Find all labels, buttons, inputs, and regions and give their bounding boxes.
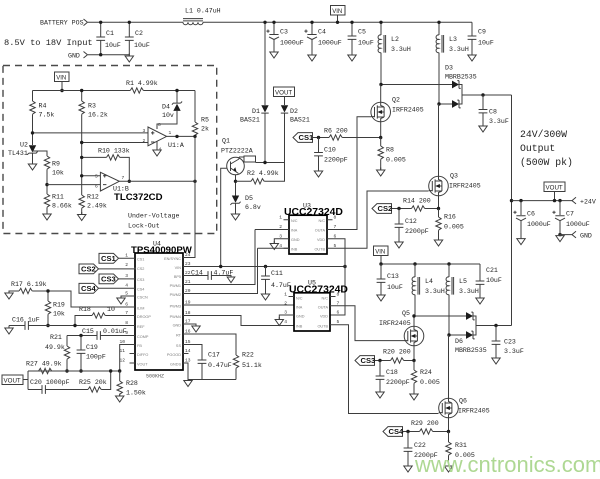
wire FB rail <box>28 370 120 372</box>
node CS1 tag phase <box>293 133 314 143</box>
ground U2 <box>28 162 36 171</box>
capacitor C19 <box>65 336 106 373</box>
svg-text:0.01uF: 0.01uF <box>103 328 127 335</box>
svg-text:INB: INB <box>296 325 303 329</box>
transistor Q3 IRFR2405 <box>429 104 481 208</box>
svg-text:D1: D1 <box>252 108 260 115</box>
capacitor C16 <box>9 317 135 330</box>
wire U5 OUTB to Q6 gate <box>330 325 439 414</box>
svg-text:FB: FB <box>137 344 142 348</box>
wire PWM3 pin19 <box>183 304 294 306</box>
svg-text:OUTA: OUTA <box>315 229 326 233</box>
wire U5 GND pin3 <box>279 315 294 320</box>
ground C10 <box>314 169 322 178</box>
node CS1 tag <box>99 253 135 263</box>
svg-text:10k: 10k <box>52 170 64 177</box>
svg-text:PWM2: PWM2 <box>170 293 181 297</box>
capacitor C17 <box>198 352 232 380</box>
resistor R3 <box>79 89 108 195</box>
svg-text:Q6: Q6 <box>459 398 467 405</box>
wire pin15 SS <box>183 345 202 361</box>
svg-text:R4: R4 <box>39 103 47 110</box>
wire U3 INA from PWM1 <box>255 229 289 231</box>
svg-text:3.3uH: 3.3uH <box>459 288 479 295</box>
svg-text:C12: C12 <box>405 218 417 225</box>
inductor L2 <box>378 21 411 85</box>
svg-text:0.005: 0.005 <box>444 224 464 231</box>
svg-text:VIN: VIN <box>375 250 385 256</box>
UVLO dashed box <box>3 66 217 234</box>
capacitor C18 <box>376 361 410 393</box>
svg-text:R6 200: R6 200 <box>324 128 348 135</box>
svg-text:D2: D2 <box>290 108 298 115</box>
svg-text:CS3: CS3 <box>361 356 376 365</box>
svg-text:C3: C3 <box>280 29 288 36</box>
wire phase3 node <box>414 315 466 317</box>
svg-text:OUTA: OUTA <box>318 306 329 310</box>
svg-text:(500W pk): (500W pk) <box>520 157 573 168</box>
svg-text:C16 1uF: C16 1uF <box>12 317 40 324</box>
svg-text:3: 3 <box>125 273 128 279</box>
wire U3 INB from PWM2 <box>258 247 290 249</box>
diode D3 MBRB2535 <box>437 65 511 108</box>
wire GNDS pin13 <box>183 363 188 380</box>
svg-text:CS1: CS1 <box>101 254 117 263</box>
svg-text:R18: R18 <box>79 306 91 313</box>
svg-text:C11: C11 <box>271 270 283 277</box>
wire main top rail <box>203 21 472 23</box>
svg-text:500KHZ: 500KHZ <box>146 374 164 380</box>
wire PWM1 pin21 <box>183 230 255 285</box>
svg-text:C10: C10 <box>324 147 336 154</box>
svg-text:SS: SS <box>176 344 182 348</box>
svg-text:1: 1 <box>279 215 282 221</box>
svg-text:CS2: CS2 <box>81 265 96 274</box>
node CS3 tag phase <box>355 356 375 366</box>
wire TL431 to R9 <box>33 151 48 156</box>
svg-text:6.8v: 6.8v <box>245 204 261 211</box>
resistor R14 <box>392 198 441 212</box>
svg-text:C1: C1 <box>106 30 114 37</box>
ground C3 <box>270 50 278 59</box>
svg-text:R11: R11 <box>52 194 64 201</box>
svg-text:INA: INA <box>296 306 303 310</box>
svg-text:MBRB2535: MBRB2535 <box>445 74 477 81</box>
resistor R4 <box>30 91 55 146</box>
ground R28 <box>116 394 124 403</box>
svg-text:2.49k: 2.49k <box>87 203 107 210</box>
svg-text:GND: GND <box>173 324 182 328</box>
svg-text:D3: D3 <box>445 65 453 72</box>
svg-text:Q5: Q5 <box>402 310 410 317</box>
svg-text:1000uF: 1000uF <box>566 221 590 228</box>
diode D6 MBRB2535 <box>447 312 511 354</box>
transistor Q6 IRFR2405 <box>439 335 490 432</box>
svg-text:CS4: CS4 <box>81 284 97 293</box>
ground U3 <box>270 241 278 250</box>
ground C16 <box>5 326 13 335</box>
resistor R17 <box>9 281 135 307</box>
svg-text:VOUT: VOUT <box>546 185 563 192</box>
svg-text:0.005: 0.005 <box>386 157 406 164</box>
ground C14 <box>227 277 235 283</box>
svg-text:5: 5 <box>95 174 98 180</box>
svg-text:C17: C17 <box>208 352 220 359</box>
capacitor C8 <box>479 95 509 126</box>
capacitor C10 <box>314 138 348 172</box>
svg-text:GND: GND <box>68 53 80 60</box>
capacitor C6 electrolytic <box>513 201 550 239</box>
svg-text:MBRB2535: MBRB2535 <box>455 347 487 354</box>
node VIN box mid <box>374 246 389 264</box>
wire U3 OUTA to Q2 gate <box>327 117 371 230</box>
wire Q1 emitter <box>235 181 237 195</box>
resistor R19 <box>45 289 65 327</box>
svg-text:10uF: 10uF <box>105 42 121 49</box>
capacitor C4 electrolytic <box>304 21 341 54</box>
wire output rail vertical <box>511 95 513 326</box>
svg-text:CS4: CS4 <box>137 288 144 292</box>
svg-text:L1 0.47uH: L1 0.47uH <box>185 8 221 15</box>
svg-text:3.3uF: 3.3uF <box>489 118 509 125</box>
svg-text:OUTB: OUTB <box>317 325 328 329</box>
svg-text:R5: R5 <box>201 117 209 124</box>
capacitor C1 <box>96 21 121 57</box>
svg-text:COMP: COMP <box>137 335 149 339</box>
capacitor C15 <box>67 328 135 340</box>
svg-text:10k: 10k <box>53 311 65 318</box>
resistor R9 <box>44 156 64 194</box>
capacitor C13 <box>377 264 403 295</box>
resistor R21 <box>45 334 70 371</box>
resistor R29 <box>403 420 451 434</box>
svg-text:C14: C14 <box>191 270 203 277</box>
svg-text:R20 200: R20 200 <box>383 349 411 356</box>
svg-text:IRFR2405: IRFR2405 <box>449 183 481 190</box>
Q1 collector box <box>239 156 256 163</box>
capacitor C7 electrolytic <box>552 201 589 237</box>
svg-text:C6: C6 <box>527 211 535 218</box>
diode U2 TL431 <box>8 142 38 165</box>
svg-text:8: 8 <box>334 215 337 221</box>
transistor Q5 IRFR2405 <box>379 310 424 360</box>
node VOUT box output <box>544 182 565 201</box>
node CS4 tag <box>79 283 135 293</box>
node CS3 tag <box>99 274 135 284</box>
ground C7 <box>556 233 564 242</box>
ground R11 <box>43 212 51 221</box>
svg-text:11: 11 <box>119 348 125 354</box>
svg-text:2k: 2k <box>201 126 209 133</box>
svg-text:1: 1 <box>125 253 128 259</box>
inductor L3 <box>436 21 469 104</box>
wire EN column down to pin24 <box>189 136 195 257</box>
svg-text:C5: C5 <box>358 29 366 36</box>
ground C6 <box>517 236 525 245</box>
svg-text:GND: GND <box>291 238 300 242</box>
svg-text:CS4: CS4 <box>389 427 405 436</box>
svg-text:R10 133k: R10 133k <box>98 148 130 155</box>
svg-text:C9: C9 <box>478 29 486 36</box>
svg-text:C20 1000pF: C20 1000pF <box>30 379 70 386</box>
svg-text:DROOP: DROOP <box>137 315 151 319</box>
capacitor C5 <box>348 21 374 54</box>
svg-text:Q1: Q1 <box>222 138 230 145</box>
resistor R28 <box>117 371 146 397</box>
ground C11 <box>261 292 269 301</box>
svg-text:2200pF: 2200pF <box>386 379 410 386</box>
svg-text:8.5V to 18V Input: 8.5V to 18V Input <box>4 38 93 48</box>
svg-text:10uF: 10uF <box>387 284 403 291</box>
inductor L5 <box>446 264 479 335</box>
svg-text:CS2: CS2 <box>137 267 144 271</box>
wire C17 R22 bottom rail <box>188 379 236 381</box>
svg-text:R12: R12 <box>87 194 99 201</box>
svg-text:VOUT: VOUT <box>4 378 21 385</box>
ground C4 <box>308 53 316 62</box>
svg-text:IRFR2405: IRFR2405 <box>458 408 490 415</box>
svg-text:INB: INB <box>291 248 298 252</box>
svg-text:IRFR2405: IRFR2405 <box>392 107 424 114</box>
svg-text:R27 49.9k: R27 49.9k <box>26 361 62 368</box>
svg-text:10: 10 <box>107 306 115 313</box>
svg-text:8: 8 <box>337 292 340 298</box>
ground R31 <box>444 464 452 473</box>
resistor R16 <box>436 209 464 241</box>
svg-text:BATTERY POS: BATTERY POS <box>40 20 84 27</box>
svg-text:CS3: CS3 <box>137 278 144 282</box>
svg-text:VOUT: VOUT <box>275 90 292 97</box>
svg-text:REF: REF <box>137 325 145 329</box>
wire EN pin24 stub <box>183 257 189 259</box>
svg-text:R21: R21 <box>50 334 62 341</box>
resistor R18 <box>73 306 135 327</box>
ground C12 <box>395 240 403 249</box>
resistor R2 <box>236 163 285 185</box>
svg-text:C4: C4 <box>318 29 326 36</box>
svg-text:C23: C23 <box>504 339 516 346</box>
svg-text:R19: R19 <box>53 302 65 309</box>
svg-text:7: 7 <box>122 175 125 181</box>
svg-text:Lock-Out: Lock-Out <box>128 223 160 230</box>
ground pin17 <box>192 324 200 333</box>
svg-text:INA: INA <box>291 229 298 233</box>
svg-text:2: 2 <box>143 138 146 144</box>
svg-text:10uF: 10uF <box>478 40 494 47</box>
resistor R1 <box>126 80 158 93</box>
svg-text:10v: 10v <box>162 112 174 119</box>
svg-text:0.47uF: 0.47uF <box>208 362 232 369</box>
svg-text:PWM3: PWM3 <box>170 305 181 309</box>
svg-text:N/C: N/C <box>296 297 303 301</box>
wire uvlo top rail <box>33 90 196 92</box>
node VIN box uvlo <box>55 72 70 92</box>
wire PWM4 pin18 <box>183 316 294 326</box>
svg-text:R2 4.99k: R2 4.99k <box>247 170 279 177</box>
ground C8 <box>479 124 487 133</box>
svg-text:1.50k: 1.50k <box>126 390 146 397</box>
wire pin14 stub <box>183 353 189 355</box>
ground R8 <box>377 168 385 177</box>
wire gnd input <box>88 54 129 56</box>
svg-text:VIN: VIN <box>56 76 66 82</box>
svg-text:L5: L5 <box>459 278 467 285</box>
svg-text:C8: C8 <box>489 109 497 116</box>
node 24V output text <box>520 129 573 168</box>
resistor R24 <box>411 361 440 395</box>
svg-text:PWM4: PWM4 <box>170 315 181 319</box>
svg-text:U2: U2 <box>20 142 28 149</box>
wire VIN phase34 bus <box>381 263 480 265</box>
ground C21 <box>476 296 484 305</box>
svg-text:2200pF: 2200pF <box>405 228 429 235</box>
wire +24V rail <box>512 200 573 202</box>
svg-text:RT: RT <box>176 334 182 338</box>
capacitor C22 <box>404 432 438 467</box>
op-amp U1:B <box>95 172 129 192</box>
resistor R27 <box>26 361 67 374</box>
svg-text:CS1: CS1 <box>299 133 315 142</box>
svg-text:U1:A: U1:A <box>168 142 184 149</box>
svg-text:GND: GND <box>580 233 592 240</box>
svg-text:CS2: CS2 <box>378 204 393 213</box>
ground U5 <box>275 317 283 326</box>
transistor Q1 PTZ2222A <box>221 138 253 182</box>
wire D1 D2 cathode node <box>256 162 285 164</box>
wire phase1 node <box>381 84 452 86</box>
svg-text:4.7uF: 4.7uF <box>214 270 234 277</box>
wire U5 OUTA to Q5 gate <box>330 306 405 341</box>
svg-text:VDD: VDD <box>317 238 325 242</box>
svg-text:10uF: 10uF <box>486 277 502 284</box>
svg-text:2: 2 <box>125 262 128 268</box>
svg-text:CS1: CS1 <box>137 258 144 262</box>
wire Q1 base to VIN pin line <box>221 168 227 266</box>
wire U3 OUTB to Q3 gate <box>327 191 429 248</box>
svg-text:+24V: +24V <box>580 199 596 206</box>
svg-text:C13: C13 <box>387 273 399 280</box>
svg-text:16.2k: 16.2k <box>88 112 108 119</box>
svg-text:C15: C15 <box>82 328 94 335</box>
svg-text:N/C: N/C <box>321 297 328 301</box>
node VIN box top <box>331 6 346 24</box>
capacitor C9 <box>468 22 494 54</box>
capacitor C21 <box>476 264 502 298</box>
resistor R22 <box>233 352 262 380</box>
svg-text:3.3uH: 3.3uH <box>391 46 411 53</box>
svg-text:N/C: N/C <box>291 219 298 223</box>
capacitor C14 <box>183 270 233 280</box>
svg-text:OUTB: OUTB <box>314 248 325 252</box>
svg-text:4: 4 <box>284 319 287 325</box>
capacitor C11 <box>261 267 291 295</box>
svg-text:1000uF: 1000uF <box>527 221 551 228</box>
wire battery pos rail <box>88 21 183 23</box>
wire CSCN pin5 <box>121 296 135 298</box>
wire U3 GND pin3 <box>274 239 289 244</box>
svg-text:N/C: N/C <box>318 219 325 223</box>
svg-text:IRFR2405: IRFR2405 <box>379 320 411 327</box>
svg-text:0.005: 0.005 <box>420 379 440 386</box>
svg-text:VOUT: VOUT <box>137 363 148 367</box>
svg-text:VIN: VIN <box>332 9 342 15</box>
ground input <box>125 54 133 63</box>
svg-text:D4: D4 <box>162 104 170 111</box>
op-amp U1:A <box>143 122 184 153</box>
svg-text:4.7uF: 4.7uF <box>271 282 291 289</box>
svg-text:TLC372CD: TLC372CD <box>114 192 163 203</box>
svg-text:1000uF: 1000uF <box>280 40 304 47</box>
ground C9 <box>468 53 476 62</box>
svg-text:GNDS: GNDS <box>170 363 181 367</box>
node CS2 tag phase <box>372 204 392 214</box>
svg-text:100pF: 100pF <box>86 354 106 361</box>
capacitor C12 <box>395 209 429 243</box>
wire pin16 RT <box>183 334 236 355</box>
svg-text:3.3uH: 3.3uH <box>425 288 445 295</box>
ground C5 <box>348 53 356 62</box>
svg-text:R29 200: R29 200 <box>411 420 439 427</box>
resistor R31 <box>446 432 475 467</box>
resistor R8 <box>378 138 406 171</box>
svg-text:R28: R28 <box>126 380 138 387</box>
svg-text:VIN: VIN <box>175 266 182 270</box>
svg-text:CSCN: CSCN <box>137 296 148 300</box>
resistor R6 <box>313 128 383 141</box>
svg-text:L2: L2 <box>391 36 399 43</box>
svg-text:8.66k: 8.66k <box>52 203 72 210</box>
svg-text:Under-Voltage: Under-Voltage <box>128 213 179 220</box>
resistor R12 <box>79 194 107 215</box>
ground U1A pin4 <box>153 141 161 156</box>
capacitor C2 <box>125 21 150 56</box>
ground R12 <box>78 212 86 221</box>
ground C18 <box>376 390 384 399</box>
wire U1B pin5 to R3 node <box>82 175 101 177</box>
wire FB pin10 <box>120 345 135 372</box>
svg-text:D5: D5 <box>245 195 253 202</box>
capacitor C3 electrolytic <box>266 21 303 51</box>
svg-text:R22: R22 <box>242 352 254 359</box>
svg-text:BAS21: BAS21 <box>240 117 260 124</box>
ground GNDS <box>184 378 192 387</box>
wire VIN pin23 line <box>183 266 345 268</box>
capacitor C23 <box>492 326 524 359</box>
ground R24 <box>410 392 418 401</box>
ground R17 <box>5 291 13 300</box>
svg-text:EN/SYNC: EN/SYNC <box>164 257 181 261</box>
wire U1A pin3 to TL431 node <box>33 132 149 134</box>
svg-text:R14 200: R14 200 <box>403 198 431 205</box>
ground CSCN <box>117 296 125 305</box>
svg-text:2: 2 <box>284 301 287 307</box>
svg-text:C2: C2 <box>135 30 143 37</box>
svg-text:C19: C19 <box>86 344 98 351</box>
svg-text:PWM1: PWM1 <box>170 284 181 288</box>
svg-text:R24: R24 <box>420 369 432 376</box>
wire U1A pin2 to R3 node <box>82 142 148 144</box>
svg-text:1: 1 <box>169 130 172 136</box>
svg-text:C21: C21 <box>486 267 498 274</box>
ground R16 <box>434 238 442 247</box>
svg-text:ILIM: ILIM <box>137 307 144 311</box>
svg-text:UCC27324D: UCC27324D <box>289 285 348 296</box>
node Under-Voltage Lock-Out <box>128 213 179 230</box>
svg-text:1: 1 <box>284 292 287 298</box>
svg-text:R17 6.19k: R17 6.19k <box>11 281 47 288</box>
resistor R11 <box>44 194 72 215</box>
svg-text:R25 20k: R25 20k <box>79 379 107 386</box>
